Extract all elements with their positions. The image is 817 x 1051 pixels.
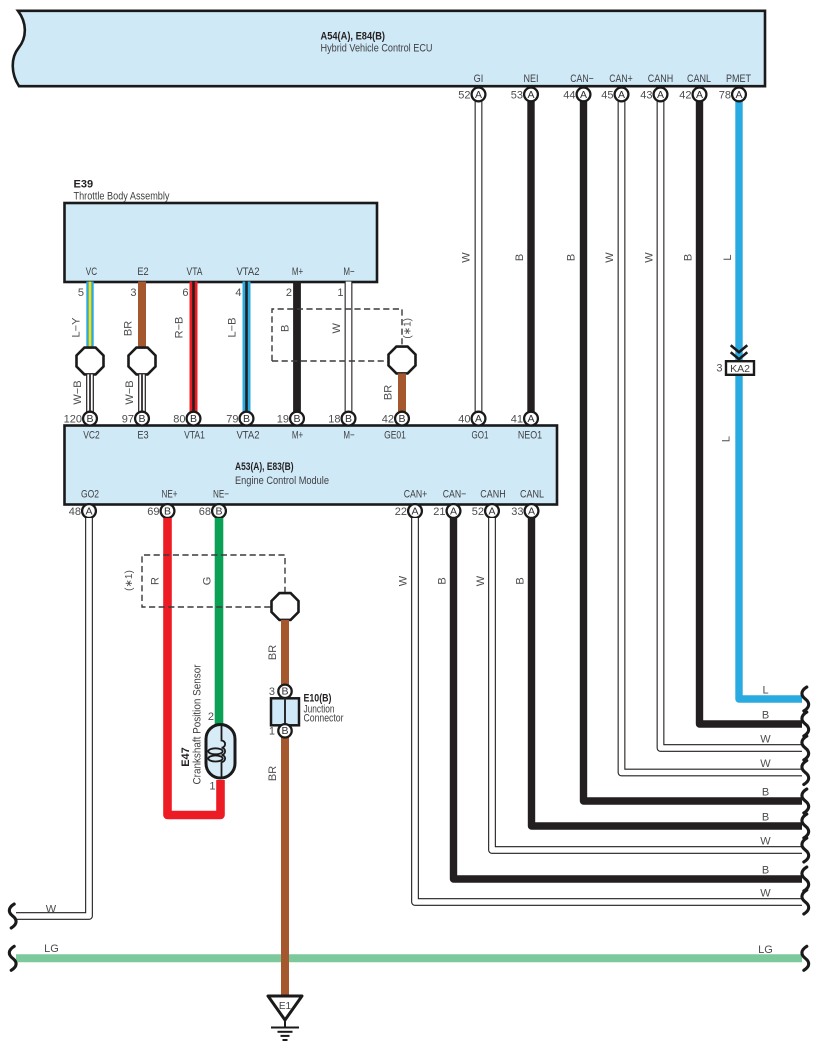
wire PMET L blue elbow to right edge bbox=[739, 100, 802, 699]
svg-text:A: A bbox=[696, 89, 703, 101]
ECM bottom pin 33 A (CANL) bbox=[511, 504, 538, 518]
break symbol left on GO2 wire bbox=[9, 904, 16, 928]
shield octagon on E2 wire bbox=[129, 348, 156, 375]
ECM top pin 42 B (GE01) bbox=[382, 412, 409, 426]
svg-text:L−Y: L−Y bbox=[71, 317, 83, 338]
svg-text:M+: M+ bbox=[292, 266, 303, 278]
Throttle Body Assembly box E39 bbox=[65, 203, 378, 282]
svg-text:Crankshaft Position Sensor: Crankshaft Position Sensor bbox=[192, 664, 204, 784]
svg-text:W: W bbox=[461, 252, 473, 263]
svg-text:VC: VC bbox=[86, 266, 97, 278]
svg-text:CAN−: CAN− bbox=[570, 73, 594, 85]
svg-text:A: A bbox=[735, 89, 742, 101]
svg-text:5: 5 bbox=[78, 287, 84, 299]
ECM top pin labels row bbox=[83, 430, 542, 442]
ECM bottom pin 68 B (NE-) bbox=[199, 504, 226, 518]
wire VTA2 L-B blue/black bbox=[243, 282, 251, 414]
svg-text:A: A bbox=[85, 505, 92, 517]
svg-text:B: B bbox=[514, 254, 526, 261]
E10(B) label text bbox=[304, 693, 344, 725]
svg-text:B: B bbox=[762, 710, 769, 722]
wire VC lower W-B bbox=[86, 374, 94, 413]
svg-text:CANH: CANH bbox=[480, 489, 505, 501]
svg-text:6: 6 bbox=[182, 287, 188, 299]
svg-text:GO1: GO1 bbox=[472, 430, 489, 442]
break symbol right on LG bbox=[802, 946, 809, 970]
svg-text:A: A bbox=[450, 505, 457, 517]
svg-text:L−B: L−B bbox=[227, 318, 239, 338]
svg-text:W: W bbox=[760, 758, 771, 770]
svg-text:B: B bbox=[86, 413, 93, 425]
svg-text:A: A bbox=[488, 505, 495, 517]
junction connector E10(B) pin 1 circle bbox=[269, 724, 292, 737]
wire ECU CANH W long elbow to right edge bbox=[661, 100, 803, 748]
ECM top pin 120 B (VC2) bbox=[64, 412, 97, 426]
svg-text:120: 120 bbox=[64, 414, 82, 426]
svg-text:A: A bbox=[411, 505, 418, 517]
ECM bottom pin 21 A (CAN-) bbox=[433, 504, 460, 518]
svg-text:NE+: NE+ bbox=[162, 489, 178, 501]
ECM title text bbox=[235, 461, 329, 487]
svg-text:45: 45 bbox=[601, 89, 613, 101]
wire M- W white bbox=[345, 282, 353, 414]
svg-text:B: B bbox=[293, 413, 300, 425]
svg-text:Engine Control Module: Engine Control Module bbox=[235, 475, 329, 487]
svg-text:53: 53 bbox=[511, 89, 523, 101]
svg-text:2: 2 bbox=[286, 287, 292, 299]
svg-text:A: A bbox=[527, 413, 534, 425]
svg-text:B: B bbox=[345, 413, 352, 425]
svg-text:W: W bbox=[46, 904, 57, 916]
svg-text:1: 1 bbox=[337, 287, 343, 299]
ECM bottom pin 48 A (GO2) bbox=[69, 504, 96, 518]
svg-text:CAN+: CAN+ bbox=[404, 489, 428, 501]
svg-text:R: R bbox=[150, 577, 162, 585]
connector KA2 box with label 3 bbox=[716, 361, 754, 375]
wire GO2 W elbow to left edge bbox=[16, 518, 89, 916]
svg-text:W: W bbox=[644, 252, 656, 263]
svg-text:PMET: PMET bbox=[726, 73, 751, 85]
ECM top pin 19 B (M+) bbox=[277, 412, 304, 426]
svg-text:1: 1 bbox=[209, 781, 215, 793]
wire BR E10 to ground bbox=[281, 736, 289, 997]
ECU title text bbox=[321, 31, 433, 55]
ECU pin 78 A (PMET) bbox=[719, 88, 746, 102]
wire ECU CAN- B long elbow to right edge bbox=[584, 100, 803, 801]
svg-text:LG: LG bbox=[44, 943, 59, 955]
break symbol left on LG bbox=[9, 946, 16, 970]
svg-text:NE−: NE− bbox=[213, 489, 229, 501]
connector KA2 chevron arrows on PMET wire bbox=[731, 345, 748, 359]
ECM bottom pin 22 A (CAN+) bbox=[395, 504, 422, 518]
svg-text:VTA1: VTA1 bbox=[184, 430, 205, 442]
svg-text:B: B bbox=[215, 505, 222, 517]
svg-text:E47: E47 bbox=[180, 747, 192, 767]
svg-text:CAN−: CAN− bbox=[443, 489, 467, 501]
svg-text:68: 68 bbox=[199, 506, 211, 518]
svg-text:(∗1): (∗1) bbox=[403, 318, 414, 339]
wire BR over LG crossing bbox=[281, 950, 289, 967]
svg-text:B: B bbox=[164, 505, 171, 517]
svg-text:B: B bbox=[281, 686, 288, 698]
svg-text:97: 97 bbox=[122, 414, 134, 426]
svg-text:69: 69 bbox=[147, 506, 159, 518]
svg-text:B: B bbox=[762, 812, 769, 824]
svg-text:CAN+: CAN+ bbox=[609, 73, 633, 85]
ECU pin 42 A (CANL) bbox=[679, 88, 706, 102]
svg-text:B: B bbox=[280, 325, 292, 332]
svg-text:W: W bbox=[475, 575, 487, 586]
svg-text:L: L bbox=[722, 254, 734, 260]
svg-text:W: W bbox=[331, 322, 343, 333]
svg-text:(∗1): (∗1) bbox=[124, 570, 135, 591]
svg-text:42: 42 bbox=[679, 89, 691, 101]
svg-text:GE01: GE01 bbox=[384, 430, 406, 442]
svg-text:44: 44 bbox=[563, 89, 575, 101]
junction connector E10(B) pin 3 circle bbox=[269, 685, 292, 698]
svg-text:19: 19 bbox=[277, 414, 289, 426]
throttle pin numbers bbox=[78, 287, 344, 299]
svg-text:BR: BR bbox=[267, 645, 279, 660]
svg-text:B: B bbox=[243, 413, 250, 425]
svg-text:B: B bbox=[566, 254, 578, 261]
wire ECM CAN+ W elbow to right edge bbox=[415, 518, 802, 902]
svg-text:LG: LG bbox=[758, 944, 773, 956]
svg-text:G: G bbox=[202, 577, 214, 586]
wire VC L-Y blue/yellow bbox=[86, 282, 93, 350]
svg-text:VTA2: VTA2 bbox=[236, 430, 259, 442]
svg-text:CANH: CANH bbox=[648, 73, 673, 85]
ECM top pin 18 B (M-) bbox=[328, 412, 355, 426]
svg-text:4: 4 bbox=[235, 287, 241, 299]
svg-text:KA2: KA2 bbox=[730, 363, 750, 375]
svg-text:L: L bbox=[762, 685, 768, 697]
svg-text:1: 1 bbox=[269, 725, 275, 737]
wire NE- G green bbox=[215, 518, 224, 727]
break symbols right edge x9 bbox=[802, 687, 809, 914]
ECU pin 52 A (GI) bbox=[458, 88, 485, 102]
svg-text:L: L bbox=[721, 436, 733, 442]
svg-text:3: 3 bbox=[716, 363, 722, 375]
ECU pin 53 A (NEI) bbox=[511, 88, 538, 102]
svg-text:A54(A), E84(B): A54(A), E84(B) bbox=[321, 31, 386, 43]
svg-text:B: B bbox=[281, 725, 288, 737]
wire ECU CANL B long elbow to right edge bbox=[700, 100, 803, 724]
svg-text:B: B bbox=[190, 413, 197, 425]
svg-text:E2: E2 bbox=[137, 266, 148, 278]
wire BR octagon to E10 bbox=[281, 620, 289, 685]
Engine Control Module box A53(A), E83(B) bbox=[65, 426, 558, 505]
svg-text:B: B bbox=[437, 577, 449, 584]
svg-text:52: 52 bbox=[458, 89, 470, 101]
svg-text:E3: E3 bbox=[137, 430, 148, 442]
svg-text:W: W bbox=[760, 734, 771, 746]
svg-text:W: W bbox=[604, 252, 616, 263]
svg-text:33: 33 bbox=[511, 506, 523, 518]
svg-text:3: 3 bbox=[130, 287, 136, 299]
svg-text:GO2: GO2 bbox=[81, 489, 99, 501]
crankshaft sensor E47 capsule with coil bbox=[206, 725, 235, 779]
svg-text:42: 42 bbox=[382, 414, 394, 426]
svg-text:79: 79 bbox=[226, 414, 238, 426]
svg-text:B: B bbox=[762, 865, 769, 877]
wire NEI B (ECU pin 53 to ECM NEO1) bbox=[527, 100, 534, 413]
ECM top pin 41 A (NEO1) bbox=[511, 412, 538, 426]
svg-text:78: 78 bbox=[719, 89, 731, 101]
svg-text:41: 41 bbox=[511, 414, 523, 426]
ECU box A54(A), E84(B) Hybrid Vehicle Control ECU bbox=[13, 11, 765, 86]
svg-text:Connector: Connector bbox=[304, 713, 344, 725]
wire M+ B black bbox=[293, 282, 301, 414]
ECM bottom pin 52 A (CANH) bbox=[472, 504, 499, 518]
svg-text:GI: GI bbox=[474, 73, 484, 85]
svg-text:E39: E39 bbox=[74, 179, 94, 191]
svg-text:VTA: VTA bbox=[187, 266, 204, 278]
throttle pin labels row bbox=[86, 266, 355, 278]
svg-text:40: 40 bbox=[458, 414, 470, 426]
wire GE01 BR brown bbox=[398, 373, 406, 413]
svg-text:B: B bbox=[683, 254, 695, 261]
svg-text:E1: E1 bbox=[279, 1001, 292, 1012]
wire ECM CANH W elbow to right edge bbox=[492, 518, 802, 850]
ECM top pin 97 B (E3) bbox=[122, 412, 149, 426]
svg-text:A: A bbox=[475, 413, 482, 425]
ECU pin labels row bbox=[474, 73, 752, 85]
svg-text:B: B bbox=[515, 577, 527, 584]
svg-text:A: A bbox=[475, 89, 482, 101]
svg-text:A53(A), E83(B): A53(A), E83(B) bbox=[235, 461, 294, 473]
svg-text:M−: M− bbox=[343, 430, 354, 442]
svg-text:A: A bbox=[657, 89, 664, 101]
svg-text:A: A bbox=[527, 89, 534, 101]
wire VTA R-B red/black bbox=[190, 282, 198, 414]
svg-text:BR: BR bbox=[383, 385, 395, 400]
svg-text:Hybrid Vehicle Control ECU: Hybrid Vehicle Control ECU bbox=[321, 43, 433, 55]
svg-text:W−B: W−B bbox=[124, 380, 136, 404]
svg-text:52: 52 bbox=[472, 506, 484, 518]
dashed shield box around NE wires (*1) bbox=[142, 555, 285, 607]
ECM bottom pin labels row bbox=[81, 489, 544, 501]
svg-text:W: W bbox=[760, 888, 771, 900]
junction connector E10(B) box bbox=[271, 698, 299, 725]
svg-text:R−B: R−B bbox=[174, 317, 186, 339]
svg-text:NEI: NEI bbox=[524, 73, 539, 85]
wire GI W (ECU pin 52 to ECM GO1) bbox=[475, 100, 483, 413]
svg-text:B: B bbox=[138, 413, 145, 425]
svg-text:3: 3 bbox=[269, 686, 275, 698]
svg-text:43: 43 bbox=[640, 89, 652, 101]
svg-text:B: B bbox=[762, 787, 769, 799]
ECU pin 43 A (CANH) bbox=[640, 88, 667, 102]
wire ECM CANL B elbow to right edge bbox=[532, 518, 803, 826]
svg-text:W−B: W−B bbox=[72, 380, 84, 404]
svg-text:CANL: CANL bbox=[520, 489, 544, 501]
ECM bottom pin 69 B (NE+) bbox=[147, 504, 174, 518]
wire NE+ R red elbow around sensor bbox=[168, 518, 221, 815]
shield octagon on VC wire bbox=[77, 348, 104, 375]
svg-text:B: B bbox=[398, 413, 405, 425]
shield octagon above E10 bbox=[272, 593, 299, 620]
svg-text:48: 48 bbox=[69, 506, 81, 518]
wire E2 BR brown bbox=[138, 282, 146, 350]
ECU pin 45 A (CAN+) bbox=[601, 88, 628, 102]
svg-text:W: W bbox=[398, 575, 410, 586]
svg-text:21: 21 bbox=[433, 506, 445, 518]
svg-text:Throttle Body Assembly: Throttle Body Assembly bbox=[74, 191, 170, 203]
wire E2 lower W-B bbox=[138, 374, 146, 413]
ECM top pin 79 B (VTA2) bbox=[226, 412, 253, 426]
svg-text:CANL: CANL bbox=[687, 73, 711, 85]
svg-text:VC2: VC2 bbox=[83, 430, 100, 442]
ground symbol E1 bbox=[268, 996, 302, 1040]
svg-text:BR: BR bbox=[267, 766, 279, 781]
svg-text:W: W bbox=[760, 836, 771, 848]
svg-text:80: 80 bbox=[173, 414, 185, 426]
wire LG light green across page bbox=[16, 954, 802, 962]
svg-text:18: 18 bbox=[328, 414, 340, 426]
svg-text:VTA2: VTA2 bbox=[236, 266, 259, 278]
svg-text:NEO1: NEO1 bbox=[518, 430, 542, 442]
dashed shield box around M+/M- wires (*1) bbox=[272, 309, 402, 361]
ECU pin 44 A (CAN-) bbox=[563, 88, 590, 102]
ECM top pin 40 A (GO1) bbox=[458, 412, 485, 426]
wire ECM CAN- B elbow to right edge bbox=[454, 518, 803, 879]
svg-text:BR: BR bbox=[123, 321, 135, 336]
ECM top pin 80 B (VTA1) bbox=[173, 412, 200, 426]
wire ECU CAN+ W long elbow to right edge bbox=[622, 100, 803, 773]
E39 title text bbox=[74, 179, 170, 203]
svg-text:2: 2 bbox=[208, 711, 214, 723]
svg-text:M−: M− bbox=[343, 266, 354, 278]
svg-text:A: A bbox=[618, 89, 625, 101]
svg-text:A: A bbox=[528, 505, 535, 517]
shield octagon GE01 bbox=[389, 347, 416, 374]
svg-text:A: A bbox=[580, 89, 587, 101]
svg-text:22: 22 bbox=[395, 506, 407, 518]
svg-text:M+: M+ bbox=[292, 430, 303, 442]
